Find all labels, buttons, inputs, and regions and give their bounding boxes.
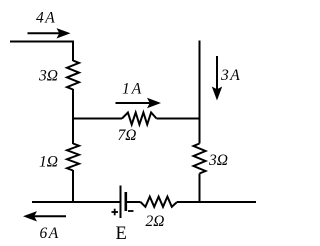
label 2ohm [146, 213, 165, 230]
battery E short plate [125, 192, 128, 211]
wire left vertical middle [72, 89, 74, 144]
label 1ohm [39, 154, 58, 171]
wire bottom left segment [32, 201, 120, 203]
resistor 2ohm [141, 197, 178, 207]
label 6A [40, 225, 59, 242]
resistor 1ohm [67, 144, 79, 171]
current arrow 1A [116, 98, 162, 108]
svg-text:1A: 1A [122, 81, 142, 98]
label 4A [36, 10, 55, 27]
wire left vertical lower [72, 170, 74, 203]
wire top-left horizontal [10, 41, 74, 43]
wire bottom between battery and 2ohm [127, 201, 141, 203]
svg-text:3Ω: 3Ω [38, 68, 58, 85]
wire bottom right segment [177, 201, 256, 203]
current arrow 3A [212, 56, 222, 101]
svg-text:1Ω: 1Ω [39, 154, 58, 171]
label 3ohm right [208, 152, 228, 169]
current arrow 6A [23, 211, 66, 221]
svg-text:2Ω: 2Ω [146, 213, 165, 230]
svg-text:6A: 6A [40, 225, 59, 242]
wire middle horizontal left [72, 118, 122, 120]
resistor 3ohm left [67, 61, 79, 90]
svg-text:7Ω: 7Ω [118, 127, 137, 144]
label E [116, 224, 127, 244]
wire right vertical lower [199, 174, 201, 204]
battery E long plate [120, 186, 122, 219]
wire left vertical upper [72, 41, 74, 62]
resistor 7ohm [122, 113, 157, 125]
label 7ohm [118, 127, 137, 144]
resistor 3ohm right [194, 144, 206, 174]
svg-text:3Ω: 3Ω [208, 152, 228, 169]
wire middle horizontal right [157, 118, 201, 120]
wire right vertical upper [199, 41, 201, 144]
current arrow 4A [28, 28, 71, 38]
label 3ohm left [38, 68, 58, 85]
battery plus sign [112, 209, 119, 216]
svg-text:4A: 4A [36, 10, 55, 27]
battery minus sign [128, 210, 134, 212]
svg-text:E: E [116, 224, 127, 244]
label 3A [220, 67, 240, 84]
svg-text:3A: 3A [220, 67, 240, 84]
label 1A [122, 81, 142, 98]
